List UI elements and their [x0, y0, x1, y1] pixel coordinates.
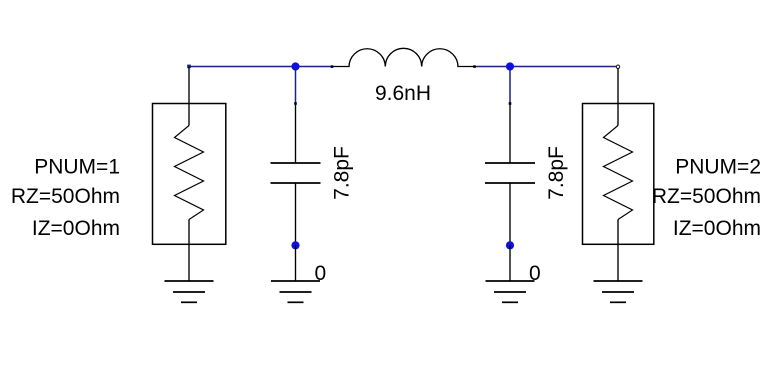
port P1 box [153, 104, 226, 245]
svg-text:7.8pF: 7.8pF [331, 146, 354, 200]
inductor L1 [332, 48, 475, 66]
svg-text:9.6nH: 9.6nH [375, 82, 431, 105]
port P1 top lead [188, 67, 190, 126]
svg-text:7.8pF: 7.8pF [545, 146, 568, 200]
svg-text:RZ=50Ohm: RZ=50Ohm [11, 185, 120, 208]
port P1 bottom lead [188, 220, 190, 282]
ground (C1) [271, 281, 320, 302]
ground (port P1) [165, 281, 214, 302]
wire net2: junction to capacitor C2 top [509, 67, 511, 104]
svg-text:IZ=0Ohm: IZ=0Ohm [32, 217, 120, 240]
node N1 junction dot [291, 62, 299, 70]
port P2 top lead [617, 68, 619, 126]
resistor in port P2 [604, 126, 633, 220]
port P2 bottom lead [617, 220, 619, 282]
inductor L1 right pin [473, 65, 476, 68]
capacitor C1 [271, 104, 321, 246]
inductor L1 left pin [331, 65, 334, 68]
wire net1: junction to capacitor C1 top [295, 67, 297, 104]
ground (port P2) [594, 281, 643, 302]
capacitor C2 [485, 104, 535, 246]
node dot at C2 bottom [506, 241, 514, 249]
svg-text:RZ=50Ohm: RZ=50Ohm [652, 185, 761, 208]
capacitor C2 top pin [509, 102, 512, 105]
port P2 box [583, 104, 654, 245]
port P2 pin marker [616, 65, 619, 68]
node N2 junction dot [506, 62, 514, 70]
wire C1 bottom to ground [295, 245, 297, 281]
svg-text:IZ=0Ohm: IZ=0Ohm [673, 217, 761, 240]
svg-text:PNUM=1: PNUM=1 [34, 155, 120, 178]
svg-text:0: 0 [529, 262, 541, 285]
capacitor C1 top pin [294, 102, 297, 105]
port P1 pin marker [187, 65, 191, 69]
node dot at C1 bottom [291, 241, 299, 249]
wire net2: inductor to port2 [475, 66, 618, 68]
svg-text:0: 0 [315, 262, 327, 285]
wire net1: port1 to inductor [189, 66, 332, 68]
wire C2 bottom to ground [509, 245, 511, 281]
resistor in port P1 [175, 126, 204, 220]
svg-text:PNUM=2: PNUM=2 [675, 155, 761, 178]
ground (C2) [486, 281, 535, 302]
